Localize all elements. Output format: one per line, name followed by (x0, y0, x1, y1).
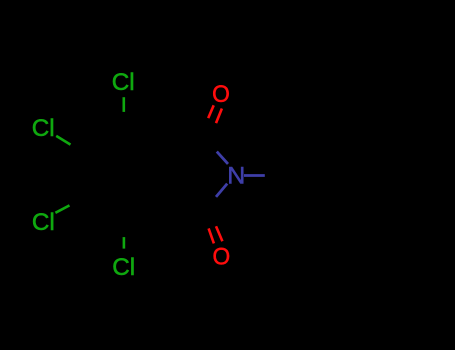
svg-text:N: N (227, 163, 245, 190)
svg-text:O: O (213, 244, 231, 271)
svg-text:Cl: Cl (32, 209, 55, 236)
svg-text:Cl: Cl (112, 254, 135, 281)
svg-text:O: O (212, 81, 230, 108)
svg-text:Cl: Cl (112, 69, 135, 96)
svg-text:Cl: Cl (32, 115, 55, 142)
